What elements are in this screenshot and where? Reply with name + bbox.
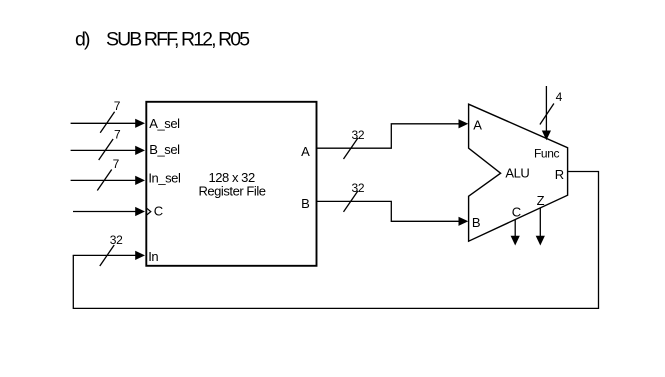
svg-text:In_sel: In_sel (148, 170, 181, 185)
svg-text:A: A (473, 117, 482, 132)
bus slash B_sel (99, 139, 113, 160)
bus slash In (100, 245, 114, 266)
arrowhead C flag (511, 236, 520, 246)
wire Func input (545, 86, 547, 131)
svg-text:C: C (154, 204, 163, 219)
wire Z flag output (539, 208, 541, 237)
svg-text:7: 7 (114, 127, 121, 141)
svg-text:Func: Func (534, 146, 559, 160)
arrowhead B to ALU (459, 217, 469, 226)
register file box (146, 102, 316, 266)
svg-text:32: 32 (352, 128, 365, 142)
arrowhead In_sel (135, 176, 145, 185)
arrowhead In (135, 251, 145, 260)
wire A bus to ALU (316, 124, 458, 148)
wire C clock input (73, 211, 136, 213)
svg-text:SUB RFF, R12, R05: SUB RFF, R12, R05 (106, 28, 250, 50)
svg-text:32: 32 (110, 233, 123, 247)
svg-text:4: 4 (556, 90, 563, 104)
svg-text:B: B (472, 215, 480, 230)
bus slash A_sel (100, 112, 114, 133)
wire B bus to ALU (316, 201, 458, 221)
svg-text:Z: Z (537, 193, 545, 208)
arrowhead Func (542, 131, 551, 141)
wire In_sel input (71, 179, 136, 181)
wire R feedback to In (73, 172, 598, 309)
bus slash B (344, 191, 358, 212)
svg-text:R: R (555, 167, 564, 182)
svg-text:B: B (301, 196, 309, 211)
svg-text:C: C (512, 205, 521, 220)
svg-text:A_sel: A_sel (149, 116, 180, 131)
svg-text:7: 7 (114, 99, 121, 113)
svg-text:d): d) (75, 28, 90, 50)
bus slash A (344, 138, 358, 159)
bus slash In_sel (97, 170, 111, 191)
arrowhead A to ALU (459, 119, 469, 128)
arrowhead C (135, 207, 145, 216)
svg-text:B_sel: B_sel (149, 142, 180, 157)
svg-text:7: 7 (113, 157, 120, 171)
svg-text:Register File: Register File (198, 183, 265, 198)
ALU U1 body (469, 104, 568, 241)
svg-text:ALU: ALU (505, 166, 529, 181)
arrowhead Z flag (536, 236, 545, 246)
svg-text:A: A (301, 144, 310, 159)
svg-text:In: In (148, 249, 158, 264)
wire C flag output (514, 219, 516, 236)
bus slash Func (540, 104, 554, 125)
wire B_sel input (71, 149, 136, 151)
arrowhead A_sel (135, 119, 145, 128)
wire A_sel input (71, 122, 136, 124)
clock symbol (147, 208, 151, 215)
arrowhead B_sel (135, 146, 145, 155)
wire In input (73, 254, 136, 256)
svg-text:32: 32 (352, 181, 365, 195)
